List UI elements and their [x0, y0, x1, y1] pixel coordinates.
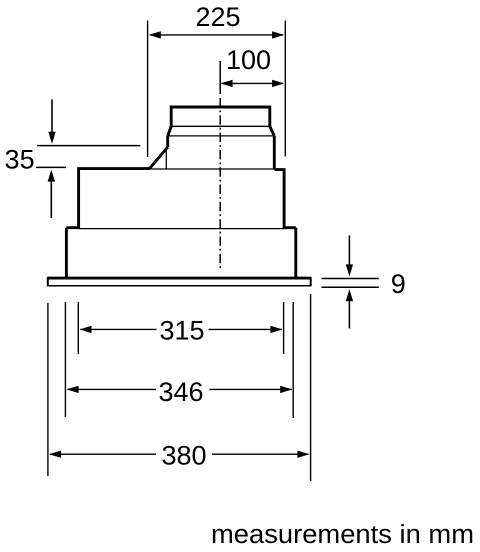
right flare vertical	[273, 136, 276, 169]
flange bottom	[48, 285, 311, 287]
dim 100 line	[222, 82, 284, 84]
dim 380 right extension	[310, 294, 312, 481]
dim 100 right arrow	[272, 80, 284, 87]
dim 346 right extension	[292, 302, 294, 418]
dim 346 left arrow	[67, 386, 79, 393]
dim 380 left arrow	[49, 451, 61, 458]
right flare diagonal	[270, 126, 275, 136]
dim 35 down arrow	[51, 99, 53, 133]
collar joint line	[171, 125, 270, 127]
flange top	[48, 277, 311, 280]
dim 9 up arrow	[348, 300, 350, 329]
duct collar outline	[171, 107, 270, 126]
left flare vertical	[166, 136, 169, 147]
body mid tier outline	[66, 169, 295, 228]
centerline solid tick	[219, 61, 221, 94]
body lower tier outline	[66, 228, 295, 278]
dim 315 line	[81, 328, 283, 330]
svg-text:315: 315	[159, 316, 204, 346]
svg-text:346: 346	[158, 377, 203, 407]
tier joint line	[79, 228, 284, 230]
dim 225 left extension	[147, 21, 149, 158]
hood slanted face	[150, 147, 168, 168]
dim 380 line	[50, 453, 309, 455]
svg-text:380: 380	[161, 440, 206, 470]
dim 100 left arrow	[221, 80, 233, 87]
centerline dash-dot	[219, 98, 221, 268]
flare joint line	[168, 135, 275, 137]
dim 35 upper reference line	[37, 145, 140, 147]
dim 9 upper line	[322, 278, 379, 280]
dim 380 left extension	[47, 303, 49, 476]
flare inner edge	[165, 147, 167, 169]
dim 315 left arrow	[80, 326, 92, 333]
dim 9 down arrow	[348, 236, 350, 266]
dim 380 right arrow	[297, 451, 309, 458]
svg-text:9: 9	[391, 269, 406, 299]
dim 225 right extension	[284, 21, 286, 157]
dim 346 line	[68, 388, 293, 390]
dim 346 left extension	[64, 302, 66, 417]
left flare diagonal	[168, 126, 172, 136]
dim 35 lower reference line	[36, 166, 66, 168]
dim 346 right arrow	[280, 386, 292, 393]
flange left end	[47, 277, 49, 286]
svg-text:100: 100	[226, 45, 271, 75]
dim 35 up arrow	[50, 181, 52, 219]
flange right end	[310, 277, 312, 286]
svg-text:measurements in mm: measurements in mm	[211, 521, 474, 549]
dim 225 line	[150, 34, 283, 36]
dim 315 right arrow	[270, 326, 282, 333]
dim 9 lower line	[322, 286, 379, 288]
dim 315 right extension	[283, 302, 285, 354]
dim 225 left arrow	[149, 31, 161, 38]
svg-text:35: 35	[5, 144, 35, 174]
svg-text:225: 225	[195, 2, 240, 32]
dim 225 right arrow	[272, 31, 284, 38]
body top edge thin	[150, 168, 275, 170]
dim 315 left extension	[77, 302, 79, 354]
